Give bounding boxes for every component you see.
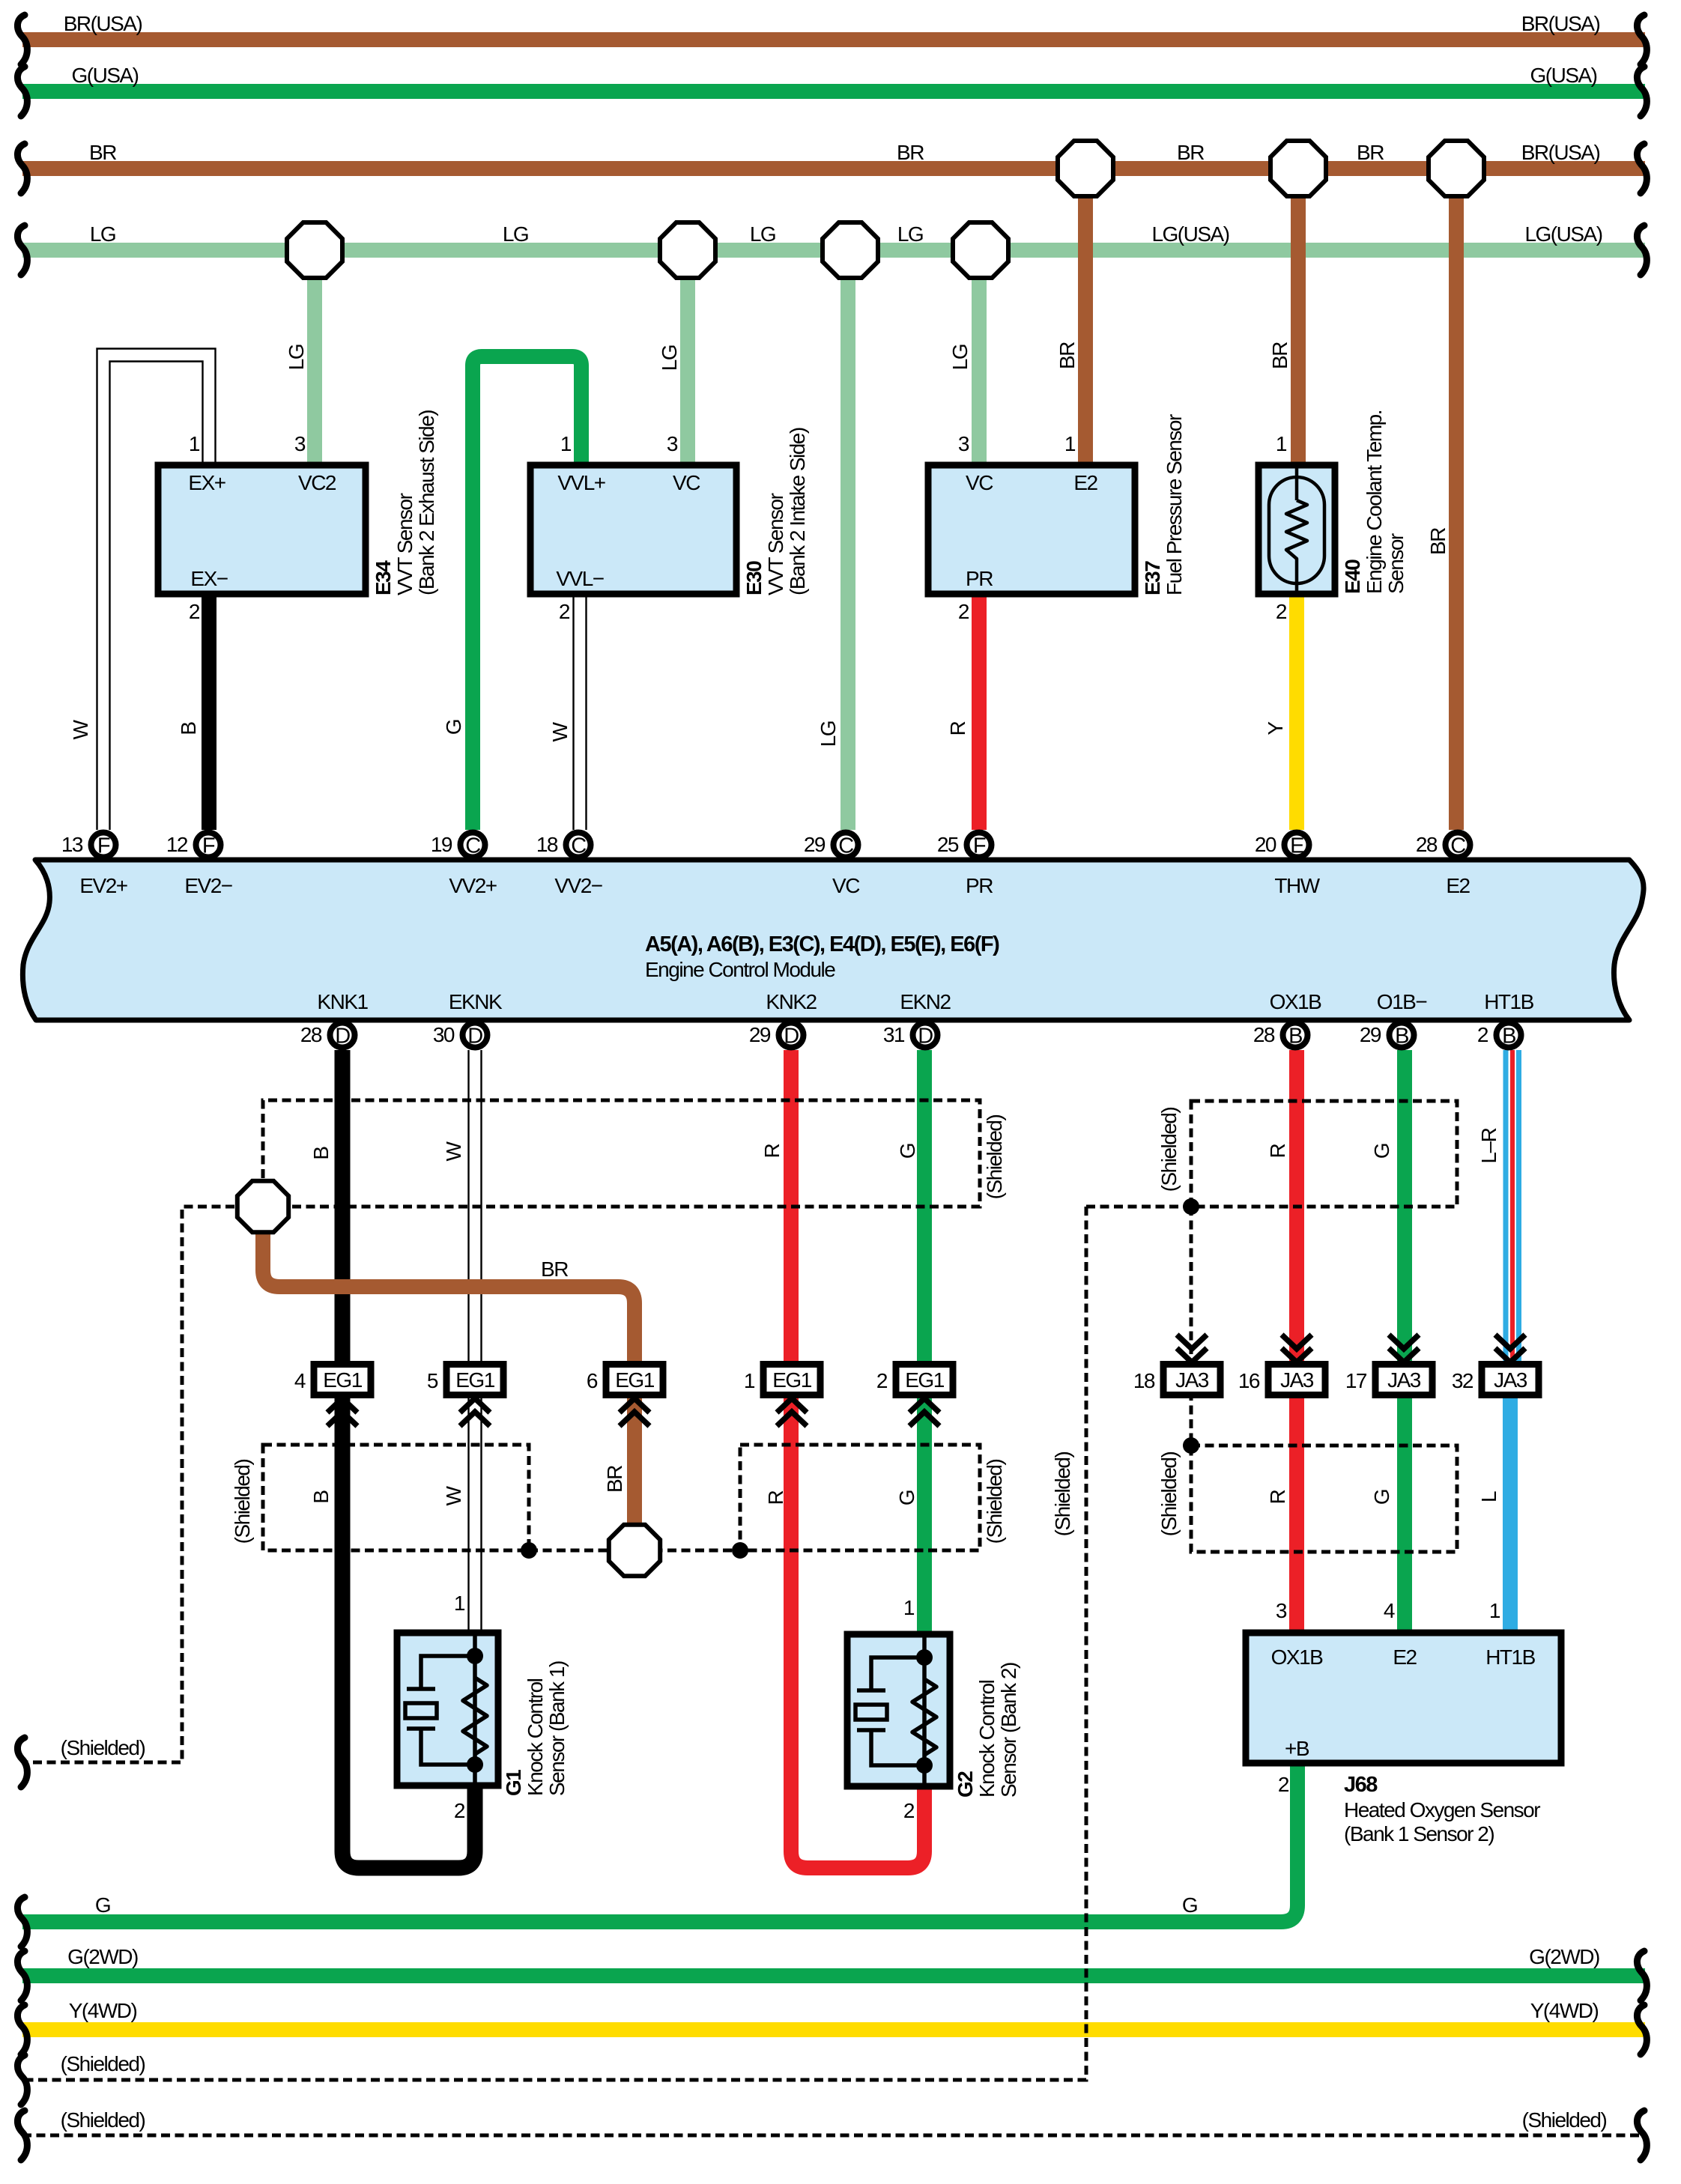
svg-text:W: W: [548, 721, 572, 741]
svg-text:BR: BR: [1055, 342, 1079, 369]
svg-text:12: 12: [166, 833, 188, 856]
svg-text:3: 3: [1276, 1599, 1287, 1622]
svg-text:(Shielded): (Shielded): [1051, 1452, 1074, 1537]
svg-text:18: 18: [536, 833, 558, 856]
svg-text:(Bank 1 Sensor 2): (Bank 1 Sensor 2): [1344, 1822, 1494, 1845]
svg-text:E30: E30: [742, 561, 766, 595]
svg-text:Engine Control Module: Engine Control Module: [645, 958, 835, 981]
svg-text:(Shielded): (Shielded): [1522, 2108, 1607, 2132]
svg-text:2: 2: [903, 1799, 915, 1822]
svg-text:BR: BR: [897, 141, 924, 164]
svg-text:OX1B: OX1B: [1270, 990, 1322, 1013]
svg-text:VC: VC: [673, 471, 700, 494]
svg-text:(Shielded): (Shielded): [983, 1460, 1006, 1544]
svg-text:HT1B: HT1B: [1484, 990, 1533, 1013]
svg-text:O1B−: O1B−: [1377, 990, 1427, 1013]
svg-text:Knock Control: Knock Control: [524, 1678, 547, 1796]
svg-text:OX1B: OX1B: [1271, 1645, 1324, 1669]
svg-text:EG1: EG1: [615, 1368, 654, 1392]
svg-text:JA3: JA3: [1175, 1368, 1209, 1392]
svg-text:B: B: [177, 722, 200, 735]
svg-text:VVL−: VVL−: [556, 567, 603, 590]
svg-text:Sensor (Bank 2): Sensor (Bank 2): [997, 1663, 1020, 1798]
svg-text:2: 2: [454, 1799, 465, 1822]
svg-text:29: 29: [1360, 1023, 1381, 1046]
svg-text:29: 29: [749, 1023, 771, 1046]
svg-text:2: 2: [559, 600, 570, 623]
svg-text:3: 3: [958, 432, 969, 455]
svg-text:W: W: [442, 1141, 465, 1161]
svg-text:W: W: [442, 1485, 465, 1505]
svg-text:4: 4: [294, 1369, 306, 1392]
svg-text:E2: E2: [1393, 1645, 1417, 1669]
svg-text:17: 17: [1345, 1369, 1367, 1392]
svg-text:EKNK: EKNK: [449, 990, 503, 1013]
svg-text:18: 18: [1133, 1369, 1155, 1392]
svg-text:C: C: [1450, 834, 1465, 858]
svg-text:E40: E40: [1341, 559, 1364, 594]
svg-text:F: F: [973, 834, 986, 858]
svg-text:D: D: [784, 1025, 799, 1049]
svg-text:1: 1: [744, 1369, 755, 1392]
svg-text:R: R: [946, 721, 969, 735]
svg-text:3: 3: [667, 432, 678, 455]
svg-text:LG(USA): LG(USA): [1524, 222, 1602, 246]
svg-text:EG1: EG1: [905, 1368, 944, 1392]
svg-text:B: B: [309, 1490, 333, 1504]
svg-text:EG1: EG1: [323, 1368, 362, 1392]
svg-text:LG: LG: [658, 345, 681, 371]
svg-text:2: 2: [876, 1369, 888, 1392]
svg-text:EG1: EG1: [455, 1368, 494, 1392]
svg-text:D: D: [335, 1025, 350, 1049]
svg-text:EKN2: EKN2: [900, 990, 951, 1013]
svg-text:R: R: [764, 1490, 787, 1505]
svg-text:Sensor (Bank 1): Sensor (Bank 1): [545, 1661, 569, 1796]
svg-text:VC2: VC2: [298, 471, 336, 494]
svg-text:E2: E2: [1446, 874, 1470, 897]
svg-text:BR(USA): BR(USA): [1521, 141, 1600, 164]
svg-text:EX+: EX+: [188, 471, 225, 494]
svg-text:LG: LG: [897, 222, 923, 246]
svg-text:BR: BR: [1357, 141, 1384, 164]
svg-text:E2: E2: [1073, 471, 1097, 494]
svg-text:F: F: [97, 834, 110, 858]
svg-text:Y: Y: [1264, 721, 1287, 735]
svg-text:B: B: [1395, 1025, 1408, 1049]
svg-text:VC: VC: [966, 471, 993, 494]
svg-text:1: 1: [454, 1592, 465, 1615]
svg-text:LG: LG: [90, 222, 115, 246]
svg-text:Fuel Pressure Sensor: Fuel Pressure Sensor: [1163, 414, 1186, 595]
svg-text:1: 1: [1489, 1599, 1500, 1622]
svg-text:Engine Coolant Temp.: Engine Coolant Temp.: [1363, 410, 1386, 594]
svg-text:LG: LG: [817, 721, 840, 747]
svg-text:16: 16: [1238, 1369, 1260, 1392]
svg-text:Y(4WD): Y(4WD): [69, 1999, 137, 2022]
svg-text:G1: G1: [502, 1770, 525, 1796]
svg-text:J68: J68: [1344, 1773, 1378, 1797]
svg-text:+B: +B: [1285, 1737, 1309, 1760]
svg-text:30: 30: [433, 1023, 455, 1046]
svg-text:JA3: JA3: [1280, 1368, 1314, 1392]
svg-text:19: 19: [431, 833, 452, 856]
svg-text:KNK2: KNK2: [766, 990, 817, 1013]
svg-text:W: W: [69, 719, 92, 739]
svg-text:C: C: [838, 834, 853, 858]
svg-text:VV2+: VV2+: [449, 874, 496, 897]
svg-text:EX−: EX−: [190, 567, 227, 590]
svg-text:R: R: [760, 1144, 784, 1158]
svg-text:1: 1: [560, 432, 572, 455]
svg-text:(Shielded): (Shielded): [983, 1115, 1006, 1200]
svg-text:LG(USA): LG(USA): [1151, 222, 1229, 246]
svg-text:HT1B: HT1B: [1485, 1645, 1535, 1669]
svg-text:6: 6: [587, 1369, 598, 1392]
svg-text:(Shielded): (Shielded): [231, 1460, 254, 1544]
svg-text:G: G: [1370, 1144, 1393, 1159]
svg-text:LG: LG: [285, 345, 308, 370]
svg-text:(Bank 2 Intake Side): (Bank 2 Intake Side): [786, 428, 809, 595]
svg-text:R: R: [1266, 1490, 1289, 1504]
svg-text:(Shielded): (Shielded): [1157, 1108, 1181, 1192]
svg-text:LG: LG: [750, 222, 775, 246]
svg-text:F: F: [202, 834, 215, 858]
svg-text:BR: BR: [1177, 141, 1204, 164]
svg-text:2: 2: [958, 600, 969, 623]
svg-text:E: E: [1290, 834, 1304, 858]
svg-text:G: G: [1182, 1893, 1197, 1917]
svg-text:1: 1: [1276, 432, 1287, 455]
svg-text:BR: BR: [1426, 528, 1450, 555]
svg-text:Heated Oxygen Sensor: Heated Oxygen Sensor: [1344, 1798, 1540, 1821]
svg-text:Knock Control: Knock Control: [975, 1680, 999, 1798]
svg-text:28: 28: [300, 1023, 322, 1046]
svg-text:E37: E37: [1141, 561, 1164, 595]
svg-text:D: D: [467, 1025, 482, 1049]
svg-text:LG: LG: [503, 222, 528, 246]
svg-text:(Shielded): (Shielded): [61, 1736, 145, 1759]
svg-text:G(USA): G(USA): [72, 64, 139, 87]
svg-text:2: 2: [189, 600, 200, 623]
svg-text:E34: E34: [372, 560, 395, 595]
svg-text:(Shielded): (Shielded): [61, 2052, 145, 2075]
svg-text:THW: THW: [1274, 874, 1320, 897]
svg-text:B: B: [1502, 1025, 1515, 1049]
svg-text:29: 29: [804, 833, 826, 856]
svg-text:BR: BR: [89, 141, 116, 164]
svg-text:G: G: [895, 1490, 918, 1505]
svg-text:KNK1: KNK1: [317, 990, 368, 1013]
svg-text:2: 2: [1276, 600, 1287, 623]
svg-text:C: C: [465, 834, 480, 858]
svg-text:1: 1: [1064, 432, 1076, 455]
svg-text:A5(A), A6(B), E3(C), E4(D), E5: A5(A), A6(B), E3(C), E4(D), E5(E), E6(F): [645, 932, 999, 956]
svg-text:B: B: [1288, 1025, 1302, 1049]
svg-text:B: B: [309, 1147, 333, 1160]
svg-text:JA3: JA3: [1387, 1368, 1421, 1392]
svg-text:VC: VC: [832, 874, 860, 897]
svg-text:BR: BR: [603, 1466, 626, 1493]
svg-text:2: 2: [1278, 1773, 1289, 1796]
svg-text:R: R: [1266, 1144, 1289, 1158]
svg-text:VVT Sensor: VVT Sensor: [393, 493, 417, 595]
svg-text:VVT Sensor: VVT Sensor: [764, 493, 787, 595]
svg-text:G: G: [95, 1893, 110, 1917]
svg-text:4: 4: [1384, 1599, 1395, 1622]
svg-text:C: C: [571, 834, 586, 858]
svg-text:G: G: [896, 1144, 919, 1159]
svg-text:EV2+: EV2+: [79, 874, 127, 897]
svg-text:EG1: EG1: [772, 1368, 811, 1392]
svg-text:5: 5: [427, 1369, 438, 1392]
svg-text:28: 28: [1416, 833, 1438, 856]
svg-text:2: 2: [1477, 1023, 1488, 1046]
svg-text:(Bank 2 Exhaust Side): (Bank 2 Exhaust Side): [415, 410, 438, 595]
svg-text:G: G: [442, 720, 465, 735]
svg-text:Y(4WD): Y(4WD): [1530, 1999, 1599, 2022]
svg-text:(Shielded): (Shielded): [1157, 1452, 1181, 1537]
svg-text:LG: LG: [948, 345, 972, 370]
svg-text:32: 32: [1452, 1369, 1473, 1392]
svg-text:13: 13: [61, 833, 83, 856]
svg-text:G(USA): G(USA): [1530, 64, 1597, 87]
svg-text:BR(USA): BR(USA): [1521, 12, 1600, 35]
svg-text:1: 1: [189, 432, 200, 455]
svg-text:3: 3: [294, 432, 306, 455]
svg-text:PR: PR: [966, 567, 993, 590]
svg-text:1: 1: [903, 1596, 915, 1619]
svg-text:JA3: JA3: [1494, 1368, 1527, 1392]
svg-text:PR: PR: [966, 874, 993, 897]
svg-text:28: 28: [1253, 1023, 1275, 1046]
svg-text:Sensor: Sensor: [1384, 533, 1408, 594]
svg-text:G: G: [1370, 1490, 1393, 1505]
svg-text:EV2−: EV2−: [184, 874, 231, 897]
svg-text:VVL+: VVL+: [557, 471, 605, 494]
svg-text:D: D: [918, 1025, 933, 1049]
svg-text:G2: G2: [954, 1771, 977, 1798]
svg-text:G(2WD): G(2WD): [1529, 1945, 1599, 1968]
svg-text:BR: BR: [541, 1258, 568, 1281]
svg-text:BR(USA): BR(USA): [64, 12, 142, 35]
svg-text:20: 20: [1255, 833, 1276, 856]
svg-text:25: 25: [937, 833, 959, 856]
svg-text:31: 31: [883, 1023, 905, 1046]
svg-text:G(2WD): G(2WD): [67, 1945, 138, 1968]
svg-text:L: L: [1477, 1491, 1500, 1502]
svg-text:(Shielded): (Shielded): [61, 2108, 145, 2132]
svg-text:BR: BR: [1268, 342, 1291, 369]
svg-text:VV2−: VV2−: [554, 874, 602, 897]
svg-text:L–R: L–R: [1477, 1128, 1500, 1163]
